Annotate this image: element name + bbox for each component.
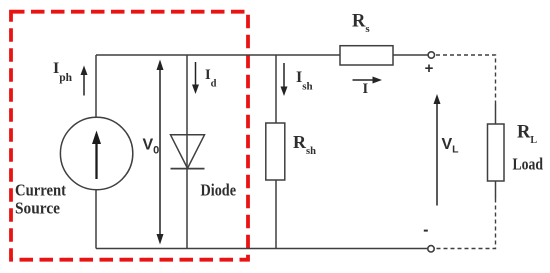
dashed wire bottom right — [435, 199, 496, 249]
svg-text:Id: Id — [205, 67, 217, 90]
arrow Ish — [281, 63, 288, 96]
current source I1 — [60, 117, 132, 189]
svg-text:Diode: Diode — [201, 181, 237, 200]
arrow Id — [192, 62, 199, 94]
dashed wire top right — [436, 55, 496, 104]
svg-text:V0: V0 — [143, 137, 160, 157]
svg-text:VL: VL — [442, 136, 460, 156]
wire Rs to plus terminal — [393, 54, 428, 56]
arrow V0 double-headed — [157, 60, 164, 245]
arrow I — [353, 77, 383, 84]
arrow Iph — [81, 66, 88, 96]
wire shunt branch bottom — [275, 180, 277, 249]
svg-text:Load: Load — [513, 155, 544, 174]
resistor Rs — [340, 46, 393, 65]
svg-text:I: I — [363, 81, 369, 97]
resistor RL — [488, 124, 505, 181]
svg-text:+: + — [425, 60, 434, 77]
svg-text:Source: Source — [15, 199, 60, 218]
resistor Rsh — [266, 123, 285, 180]
svg-text:Ish: Ish — [296, 69, 313, 93]
wire RL bottom lead — [495, 181, 497, 199]
svg-text:Rs: Rs — [352, 12, 370, 36]
terminal node plus — [428, 52, 434, 58]
label minus — [424, 230, 428, 232]
terminal node minus — [428, 246, 434, 252]
wire shunt branch top — [275, 55, 277, 123]
arrow VL — [434, 94, 441, 206]
svg-text:RL: RL — [517, 123, 537, 147]
wire bottom bus — [96, 248, 427, 250]
wire top bus — [96, 54, 340, 56]
wire current source top — [95, 55, 97, 117]
red dashed boundary box — [11, 12, 248, 260]
wire current source bottom — [95, 191, 97, 249]
svg-text:Iph: Iph — [53, 60, 73, 84]
svg-text:Rsh: Rsh — [293, 132, 316, 157]
wire RL top lead — [495, 104, 497, 124]
diode D1 — [171, 135, 205, 169]
svg-text:Current: Current — [15, 181, 66, 200]
wire diode branch — [186, 55, 188, 249]
